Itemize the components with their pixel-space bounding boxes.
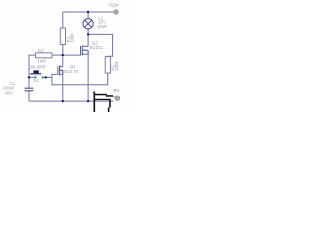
wire R2 bottom lead — [52, 73, 108, 85]
svg-text:R3: R3 — [38, 48, 44, 53]
wire R1 top lead — [62, 12, 64, 28]
resistor R2 labels — [110, 60, 118, 70]
wire R1 bottom lead to node G2 — [62, 45, 64, 56]
black descender upper — [109, 99, 111, 107]
black descender lower jog — [108, 107, 110, 112]
black bar vertical (figure edge) — [94, 92, 96, 113]
wire Q2 source down to rail — [87, 50, 89, 101]
svg-text:BS170: BS170 — [64, 69, 79, 74]
resistor R3 body — [36, 53, 53, 58]
wire Q1 source down to rail — [62, 70, 64, 101]
wire node A to S1 left contact — [29, 76, 35, 78]
junction dot top rail / lamp — [87, 11, 89, 13]
wire R3 left lead to node A — [29, 55, 36, 77]
black wire to 0V terminal lower step — [106, 95, 113, 97]
svg-text:40V: 40V — [5, 90, 13, 95]
resistor R3 labels — [38, 48, 47, 63]
junction dot Q1 source / rail — [62, 100, 64, 102]
capacitor C1 labels — [2, 81, 16, 95]
wire rail to black descender — [95, 100, 113, 102]
wire node A down to C1 — [28, 77, 30, 88]
junction dot node G2 — [62, 54, 64, 56]
black wire to 0V terminal upper — [95, 94, 107, 96]
pushbutton S1 bridge bar — [30, 73, 41, 75]
wire R3 right lead — [52, 54, 63, 56]
capacitor C1 plates — [25, 88, 34, 91]
svg-text:BUZ11: BUZ11 — [89, 45, 103, 50]
svg-text:+12V: +12V — [108, 3, 118, 8]
junction dot node A — [28, 76, 30, 78]
svg-text:100k: 100k — [114, 60, 119, 70]
pushbutton S1 pin green dots — [34, 76, 36, 78]
wire node G2 down to Q1 drain — [62, 55, 64, 67]
transistor Q1 BS170 — [58, 65, 63, 75]
resistor R1 body — [60, 28, 65, 45]
svg-text:10W: 10W — [98, 24, 108, 29]
svg-text:S1: S1 — [33, 78, 39, 83]
wire C1 bottom to rail — [28, 91, 30, 101]
wire tick to 0V terminal — [113, 96, 116, 97]
junction dot S1 right — [45, 76, 47, 78]
pushbutton S1 cap — [33, 70, 38, 73]
lamp L1 labels — [98, 16, 108, 29]
transistor Q2 BUZ11 — [81, 46, 89, 56]
wire ground rail bottom — [29, 100, 94, 102]
wire +12V rail top — [63, 11, 114, 13]
black bar horizontal lower (figure edge) — [95, 99, 111, 100]
terminal 0V circle — [115, 96, 119, 100]
junction dot drain / R2 branch — [87, 33, 89, 35]
wire lamp top lead — [87, 12, 89, 19]
transistor Q1 labels — [64, 64, 79, 74]
wire drain branch to R2 top — [88, 34, 113, 56]
transistor Q1 arrow — [60, 69, 62, 71]
resistor R1 labels — [66, 33, 74, 43]
lamp L1 — [83, 19, 93, 29]
svg-text:100k: 100k — [69, 33, 74, 43]
transistor Q2 labels — [89, 40, 103, 49]
svg-text:ON-OFF: ON-OFF — [29, 65, 46, 70]
svg-text:-0V: -0V — [113, 88, 120, 93]
wire node G2 to Q2 gate — [63, 54, 81, 56]
svg-text:1M0: 1M0 — [38, 58, 47, 63]
resistor R2 body — [105, 57, 110, 74]
junction dot Q2 source / rail — [87, 100, 89, 102]
wire S1 right contact to junction — [43, 76, 52, 78]
wire lamp bottom to Q2 drain — [87, 29, 89, 47]
terminal +12V circle — [114, 10, 118, 14]
transistor Q2 arrow — [83, 49, 85, 51]
